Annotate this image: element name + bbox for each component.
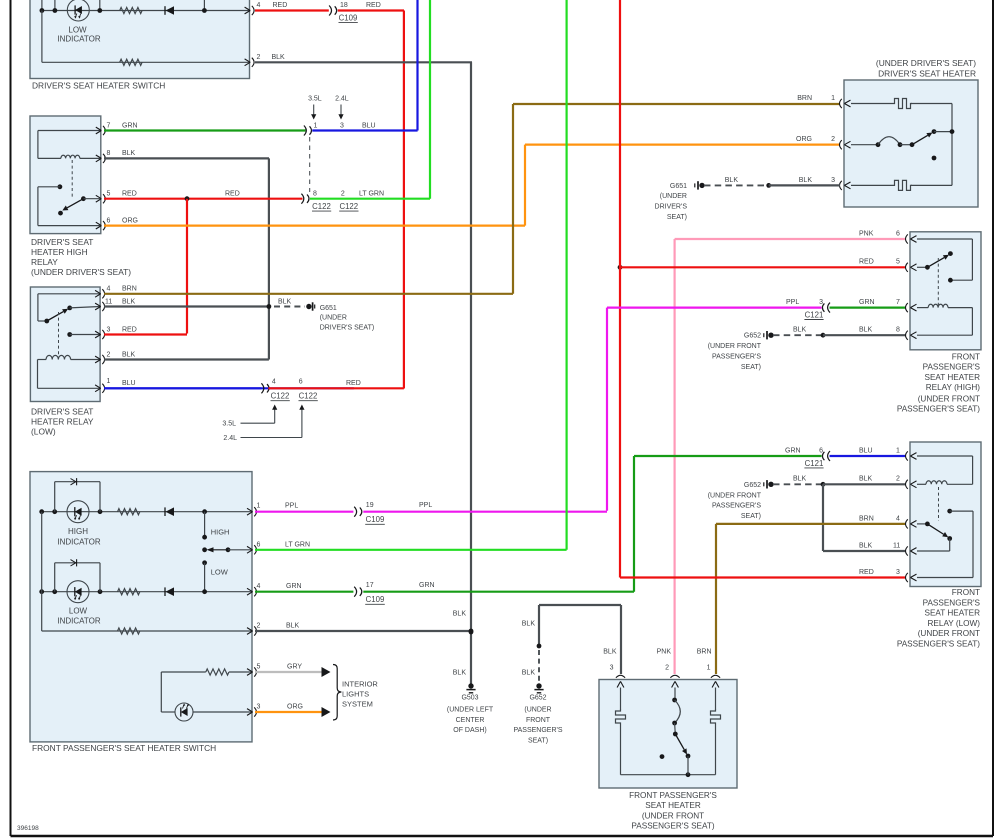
svg-text:6: 6 [107, 217, 111, 224]
svg-text:11: 11 [893, 542, 900, 549]
svg-text:SEAT HEATER: SEAT HEATER [924, 373, 980, 382]
svg-text:BLK: BLK [859, 542, 873, 549]
svg-text:3: 3 [107, 326, 111, 333]
svg-text:4: 4 [257, 2, 261, 9]
svg-text:DRIVER'S SEAT: DRIVER'S SEAT [31, 407, 93, 417]
svg-text:PASSENGER'S SEAT): PASSENGER'S SEAT) [631, 822, 714, 831]
svg-text:BLK: BLK [453, 611, 467, 618]
svg-text:G652: G652 [744, 482, 761, 489]
svg-text:ORG: ORG [796, 136, 812, 143]
svg-text:C109: C109 [366, 595, 385, 604]
svg-text:(UNDER FRONT: (UNDER FRONT [918, 629, 980, 638]
svg-text:PPL: PPL [786, 299, 799, 306]
svg-text:5: 5 [257, 663, 261, 670]
svg-text:11: 11 [105, 298, 112, 305]
svg-text:BLK: BLK [793, 476, 807, 483]
svg-text:PASSENGER'S SEAT): PASSENGER'S SEAT) [897, 405, 980, 414]
svg-text:PASSENGER'S: PASSENGER'S [712, 503, 761, 510]
svg-text:2.4L: 2.4L [335, 96, 349, 103]
svg-text:BLU: BLU [859, 447, 873, 454]
svg-text:C122: C122 [299, 392, 318, 401]
svg-text:INDICATOR: INDICATOR [57, 537, 100, 546]
svg-text:(UNDER DRIVER'S SEAT): (UNDER DRIVER'S SEAT) [876, 58, 976, 68]
svg-text:4: 4 [272, 379, 276, 386]
svg-text:3: 3 [340, 122, 344, 129]
svg-text:LOW: LOW [69, 606, 88, 615]
svg-text:RELAY: RELAY [31, 257, 58, 267]
svg-text:4: 4 [257, 583, 261, 590]
svg-text:INTERIOR: INTERIOR [342, 680, 378, 689]
svg-text:3: 3 [831, 177, 835, 184]
svg-text:C122: C122 [339, 202, 358, 211]
svg-text:(UNDER: (UNDER [660, 193, 687, 200]
svg-text:RED: RED [859, 569, 874, 576]
svg-text:7: 7 [896, 299, 900, 306]
svg-text:GRN: GRN [419, 582, 435, 589]
svg-text:DRIVER'S SEAT HEATER: DRIVER'S SEAT HEATER [878, 69, 976, 79]
svg-text:BLK: BLK [122, 150, 136, 157]
svg-text:SEAT): SEAT) [667, 214, 687, 221]
svg-text:PASSENGER'S: PASSENGER'S [513, 727, 562, 734]
svg-text:1: 1 [107, 378, 111, 385]
svg-text:6: 6 [819, 447, 823, 454]
svg-text:2: 2 [665, 665, 669, 672]
svg-text:2: 2 [257, 54, 261, 61]
svg-text:RED: RED [366, 2, 381, 9]
svg-text:2: 2 [896, 476, 900, 483]
svg-text:C122: C122 [312, 202, 331, 211]
svg-text:ORG: ORG [287, 703, 303, 710]
svg-text:C121: C121 [805, 459, 824, 468]
svg-text:BLK: BLK [286, 622, 300, 629]
svg-text:3: 3 [257, 703, 261, 710]
svg-text:5: 5 [896, 259, 900, 266]
svg-text:DRIVER'S SEAT: DRIVER'S SEAT [31, 237, 93, 247]
svg-text:3: 3 [610, 665, 614, 672]
svg-text:BLK: BLK [603, 649, 617, 656]
svg-text:2: 2 [341, 191, 345, 198]
svg-text:OF DASH): OF DASH) [453, 727, 486, 734]
svg-text:G503: G503 [461, 695, 478, 702]
svg-text:5: 5 [107, 191, 111, 198]
svg-text:BRN: BRN [122, 286, 137, 293]
svg-text:CENTER: CENTER [456, 717, 485, 724]
svg-text:6: 6 [257, 542, 261, 549]
svg-text:RED: RED [273, 2, 288, 9]
svg-text:GRY: GRY [287, 663, 302, 670]
svg-text:C109: C109 [366, 515, 385, 524]
svg-text:PNK: PNK [657, 649, 672, 656]
svg-text:DRIVER'S: DRIVER'S [655, 204, 688, 211]
svg-text:BLK: BLK [793, 327, 807, 334]
svg-text:(UNDER FRONT: (UNDER FRONT [918, 395, 980, 404]
svg-text:SEAT HEATER: SEAT HEATER [645, 801, 701, 810]
svg-text:RED: RED [225, 191, 240, 198]
svg-text:396198: 396198 [17, 825, 39, 832]
svg-text:LT GRN: LT GRN [285, 542, 310, 549]
svg-text:(UNDER: (UNDER [524, 707, 551, 714]
svg-text:17: 17 [366, 582, 374, 589]
svg-text:FRONT: FRONT [526, 717, 551, 724]
svg-text:PASSENGER'S: PASSENGER'S [923, 598, 981, 607]
svg-text:INDICATOR: INDICATOR [57, 35, 100, 44]
svg-text:3: 3 [819, 299, 823, 306]
svg-text:FRONT: FRONT [952, 353, 980, 362]
svg-text:GRN: GRN [286, 583, 302, 590]
svg-text:8: 8 [313, 191, 317, 198]
svg-text:1: 1 [707, 665, 711, 672]
svg-text:2: 2 [107, 351, 111, 358]
svg-text:BRN: BRN [859, 515, 874, 522]
svg-text:PASSENGER'S: PASSENGER'S [712, 354, 761, 361]
svg-text:GRN: GRN [785, 447, 801, 454]
svg-text:HIGH: HIGH [68, 527, 88, 536]
svg-text:FRONT PASSENGER'S: FRONT PASSENGER'S [629, 791, 717, 800]
svg-text:ORG: ORG [122, 217, 138, 224]
svg-text:FRONT PASSENGER'S SEAT HEATER: FRONT PASSENGER'S SEAT HEATER SWITCH [32, 743, 216, 753]
svg-text:BLK: BLK [522, 670, 536, 677]
svg-text:8: 8 [896, 327, 900, 334]
svg-text:RELAY (HIGH): RELAY (HIGH) [926, 383, 981, 392]
svg-text:BLK: BLK [122, 298, 136, 305]
svg-text:(UNDER DRIVER'S SEAT): (UNDER DRIVER'S SEAT) [31, 267, 131, 277]
svg-text:BLK: BLK [522, 621, 536, 628]
svg-text:HIGH: HIGH [211, 528, 230, 537]
svg-text:BLK: BLK [859, 327, 873, 334]
svg-text:PASSENGER'S: PASSENGER'S [923, 363, 981, 372]
svg-text:G651: G651 [670, 183, 687, 190]
svg-text:8: 8 [107, 150, 111, 157]
svg-text:SEAT): SEAT) [741, 513, 761, 520]
svg-text:RELAY (LOW): RELAY (LOW) [928, 619, 981, 628]
svg-text:(UNDER LEFT: (UNDER LEFT [447, 707, 494, 714]
svg-text:4: 4 [107, 286, 111, 293]
svg-text:(UNDER: (UNDER [320, 315, 347, 322]
svg-text:BRN: BRN [697, 649, 712, 656]
svg-text:RED: RED [122, 191, 137, 198]
svg-text:(LOW): (LOW) [31, 427, 56, 437]
svg-text:DRIVER'S SEAT HEATER SWITCH: DRIVER'S SEAT HEATER SWITCH [32, 81, 165, 91]
svg-text:GRN: GRN [122, 122, 138, 129]
svg-text:G652: G652 [744, 333, 761, 340]
svg-text:RED: RED [122, 326, 137, 333]
svg-text:BLK: BLK [272, 54, 286, 61]
svg-text:HEATER RELAY: HEATER RELAY [31, 417, 94, 427]
svg-text:SEAT): SEAT) [528, 737, 548, 744]
svg-text:RED: RED [859, 259, 874, 266]
svg-text:LOW: LOW [68, 26, 87, 35]
svg-text:2: 2 [831, 136, 835, 143]
svg-text:G652: G652 [529, 695, 546, 702]
svg-text:18: 18 [340, 2, 348, 9]
svg-text:2.4L: 2.4L [223, 435, 237, 442]
svg-text:(UNDER FRONT: (UNDER FRONT [642, 811, 704, 820]
svg-text:19: 19 [366, 502, 374, 509]
svg-text:6: 6 [299, 379, 303, 386]
svg-text:HEATER HIGH: HEATER HIGH [31, 247, 88, 257]
svg-text:BLK: BLK [725, 177, 739, 184]
svg-text:BLK: BLK [278, 298, 292, 305]
svg-text:PPL: PPL [285, 503, 298, 510]
svg-text:7: 7 [107, 122, 111, 129]
svg-text:3.5L: 3.5L [222, 421, 236, 428]
svg-text:G651: G651 [320, 305, 337, 312]
svg-text:1: 1 [896, 447, 900, 454]
svg-text:LOW: LOW [211, 568, 229, 577]
svg-text:BLK: BLK [799, 177, 813, 184]
svg-text:3: 3 [896, 569, 900, 576]
svg-text:1: 1 [257, 503, 261, 510]
svg-text:SEAT HEATER: SEAT HEATER [924, 609, 980, 618]
svg-text:PPL: PPL [419, 502, 432, 509]
svg-text:DRIVER'S SEAT): DRIVER'S SEAT) [320, 325, 375, 332]
svg-text:LT GRN: LT GRN [359, 191, 384, 198]
svg-text:PNK: PNK [859, 230, 874, 237]
svg-text:SYSTEM: SYSTEM [342, 700, 373, 709]
svg-text:BLK: BLK [859, 476, 873, 483]
svg-text:INDICATOR: INDICATOR [57, 617, 100, 626]
svg-text:BLU: BLU [122, 380, 136, 387]
svg-text:3.5L: 3.5L [308, 96, 322, 103]
svg-text:BLK: BLK [453, 670, 467, 677]
svg-text:PASSENGER'S SEAT): PASSENGER'S SEAT) [897, 640, 980, 649]
svg-text:RED: RED [346, 380, 361, 387]
svg-text:4: 4 [896, 515, 900, 522]
svg-text:(UNDER FRONT: (UNDER FRONT [708, 492, 762, 499]
svg-text:BLU: BLU [362, 122, 376, 129]
svg-text:GRN: GRN [859, 299, 875, 306]
svg-text:SEAT): SEAT) [741, 364, 761, 371]
svg-text:LIGHTS: LIGHTS [342, 690, 369, 699]
svg-text:BLK: BLK [122, 351, 136, 358]
svg-text:(UNDER FRONT: (UNDER FRONT [708, 343, 762, 350]
svg-text:1: 1 [831, 95, 835, 102]
svg-text:6: 6 [896, 230, 900, 237]
svg-text:2: 2 [257, 622, 261, 629]
svg-text:1: 1 [314, 122, 318, 129]
svg-text:C121: C121 [805, 310, 824, 319]
svg-text:BRN: BRN [797, 95, 812, 102]
svg-text:FRONT: FRONT [952, 588, 980, 597]
svg-text:C122: C122 [271, 392, 290, 401]
svg-text:C109: C109 [339, 14, 358, 23]
